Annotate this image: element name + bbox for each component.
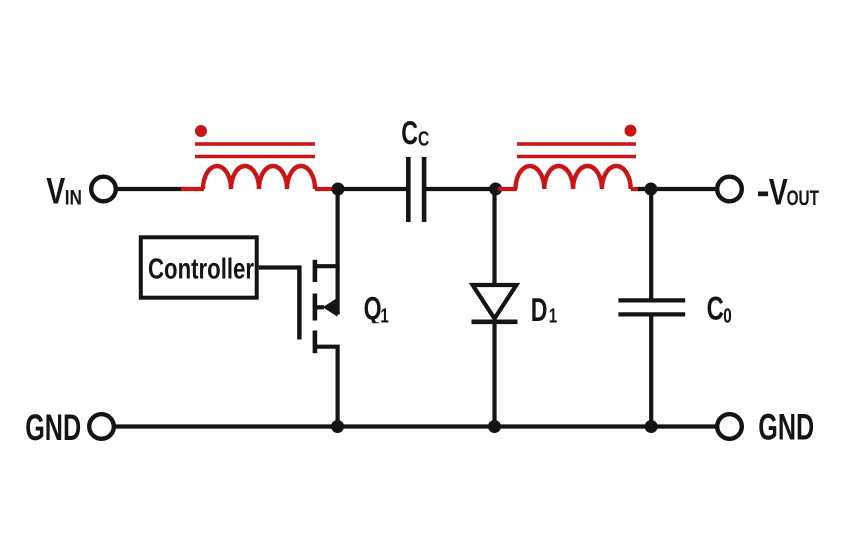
svg-text:0: 0 — [723, 305, 731, 328]
transistor Q1 body arrow — [315, 298, 338, 317]
capacitor C0 plate (bottom) — [618, 312, 685, 316]
inductor L2 polarity dot — [625, 125, 637, 137]
inductor L2 winding (red, 4 humps) — [516, 166, 631, 189]
svg-text:V: V — [46, 171, 65, 212]
svg-text:Controller: Controller — [148, 253, 254, 285]
node C: L2 / C0 / output junction — [644, 183, 657, 196]
svg-text:1: 1 — [380, 305, 388, 328]
label GND (right) — [758, 407, 814, 448]
inductor L1 winding (red, 4 humps) — [203, 166, 315, 189]
inductor L1 core line (lower) — [195, 155, 315, 159]
wire: node C down to capacitor C0 — [649, 189, 653, 301]
svg-text:C: C — [707, 289, 724, 326]
svg-text:D: D — [531, 291, 548, 328]
svg-text:C: C — [418, 127, 429, 150]
inductor L1 core line (upper) — [195, 142, 315, 146]
node E: D1 / ground rail junction — [488, 420, 501, 433]
label -VOUT — [758, 172, 819, 213]
terminal -VOUT — [717, 177, 742, 202]
wire: node A to capacitor Cc — [338, 187, 406, 191]
svg-text:IN: IN — [65, 186, 82, 209]
svg-text:V: V — [769, 172, 788, 213]
svg-text:OUT: OUT — [787, 187, 819, 210]
node A: L1 / Cc / Q1 drain junction — [332, 183, 345, 196]
svg-text:C: C — [401, 114, 418, 151]
wire: Q1 source lead down to ground rail — [315, 347, 338, 427]
wire: red lead out of L1 winding — [315, 187, 336, 191]
label GND (left) — [25, 407, 81, 448]
transistor Q1 channel segment (source side) — [313, 331, 318, 354]
capacitor C0 plate (top) — [618, 298, 685, 302]
label D1 — [531, 291, 557, 328]
svg-text:GND: GND — [758, 407, 814, 448]
wire: red lead into L2 winding — [498, 187, 517, 191]
label Controller — [148, 253, 254, 285]
wire: red lead out of L2 winding — [631, 187, 640, 191]
label Cc — [401, 114, 429, 151]
transistor Q1 channel segment (body) — [313, 294, 318, 321]
ground rail wire — [114, 424, 717, 428]
label Q1 — [364, 291, 389, 328]
wire: controller output to Q1 gate — [259, 265, 301, 269]
terminal GND (right) — [717, 414, 742, 439]
node F: C0 / ground rail junction — [645, 420, 658, 433]
inductor L2 core line (upper) — [517, 142, 636, 146]
label C0 — [707, 289, 732, 327]
terminal GND (left) — [89, 414, 114, 439]
terminal VIN — [91, 177, 116, 202]
wire: L2 to output terminal (black) — [638, 187, 717, 191]
wire: VIN terminal to inductor L1 (black) — [114, 187, 183, 191]
label VIN — [46, 171, 82, 212]
node D: Q1 source / ground rail junction — [331, 420, 344, 433]
svg-text:GND: GND — [25, 407, 81, 448]
svg-text:1: 1 — [549, 304, 557, 327]
inductor L1 polarity dot — [195, 125, 207, 137]
wire: capacitor C0 to ground rail — [649, 314, 653, 426]
capacitor Cc plate (left) — [406, 157, 411, 222]
diode D1 triangle — [473, 285, 517, 319]
wire: node B down to diode D1 — [492, 189, 496, 285]
wire: Q1 drain lead — [315, 189, 338, 266]
wire: diode D1 to ground rail — [492, 322, 496, 427]
inductor L2 core line (lower) — [517, 155, 636, 159]
transistor Q1 gate bar — [297, 266, 301, 340]
wire: red lead into L1 winding — [181, 187, 204, 191]
transistor Q1 channel segment (drain side) — [313, 260, 318, 282]
svg-text:Q: Q — [364, 291, 382, 327]
wire: Q1 drain vertical to body arrow — [336, 266, 340, 314]
wire: capacitor Cc to node B — [426, 187, 496, 191]
diode D1 cathode bar — [472, 319, 518, 324]
capacitor Cc plate (right) — [422, 157, 427, 222]
node B: Cc / D1 / L2 junction — [489, 183, 502, 196]
controller box U1 — [141, 237, 257, 297]
